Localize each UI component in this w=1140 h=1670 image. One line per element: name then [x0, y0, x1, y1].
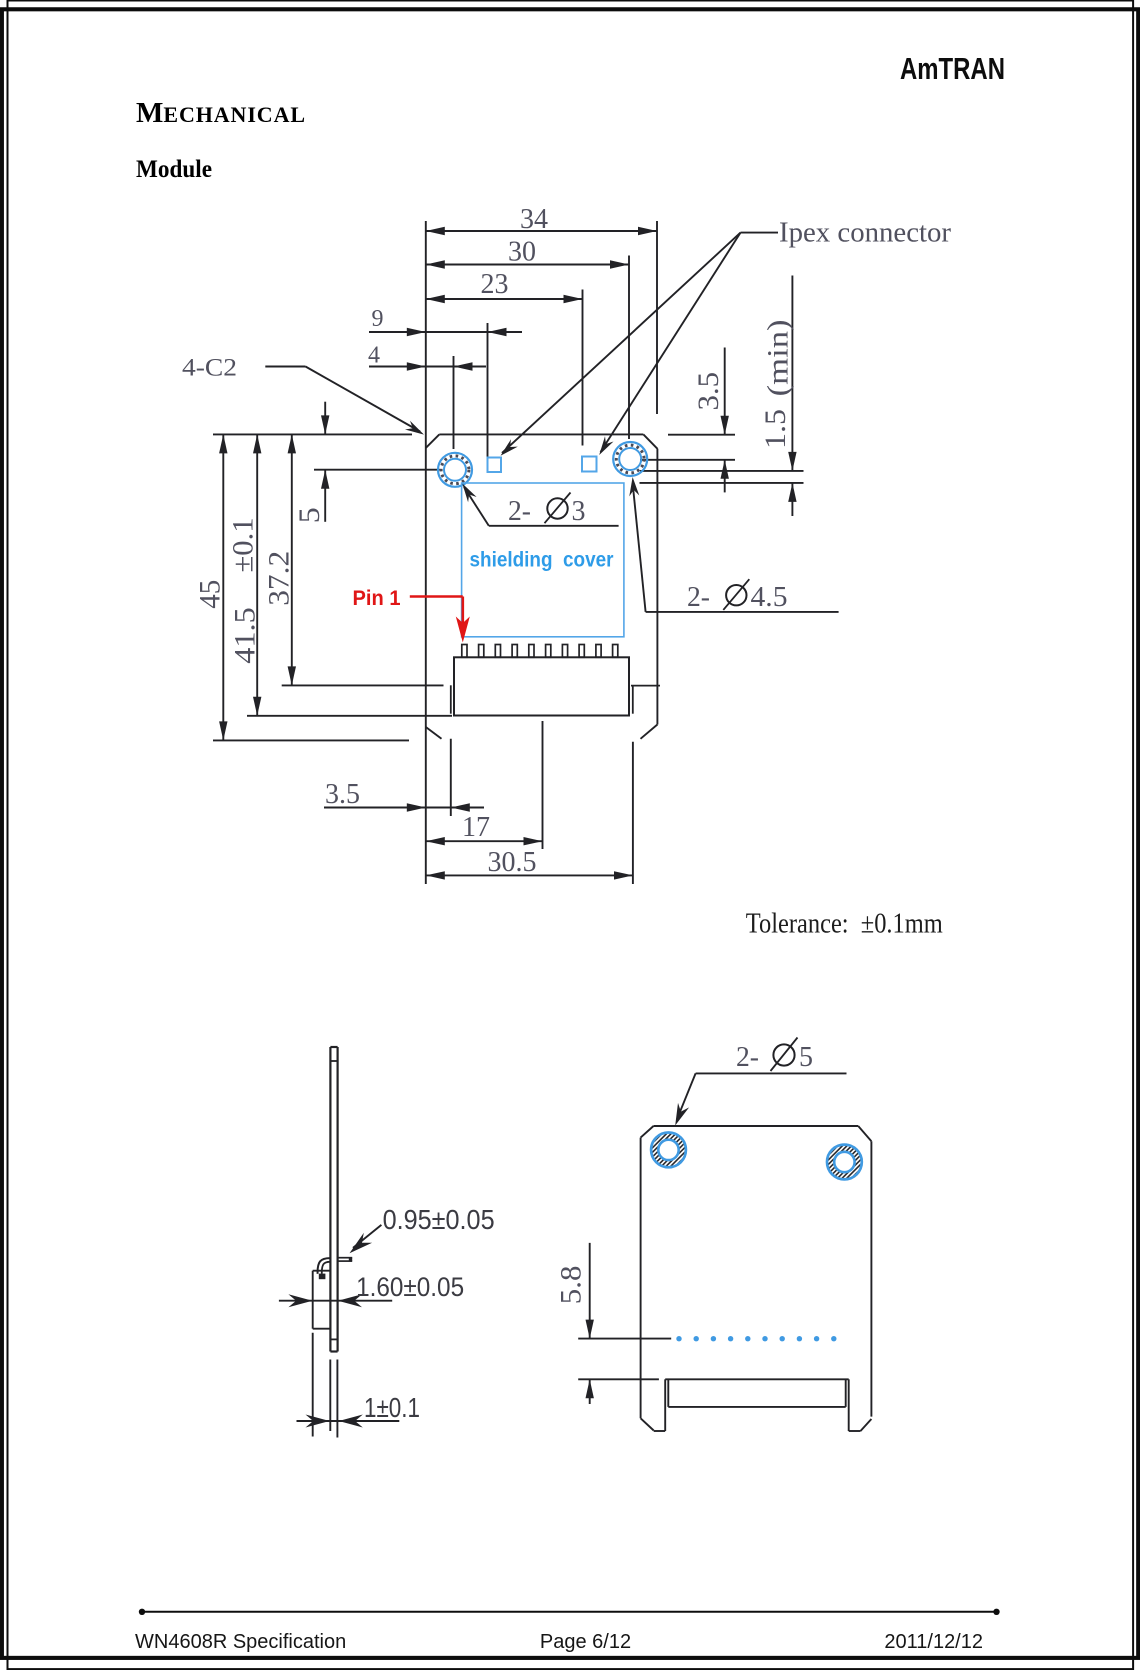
svg-text:3: 3: [572, 496, 586, 527]
svg-text:23: 23: [481, 269, 509, 300]
svg-text:shielding cover: shielding cover: [470, 549, 614, 572]
svg-text:9: 9: [372, 306, 384, 332]
svg-text:5.8: 5.8: [555, 1266, 588, 1305]
svg-text:2-: 2-: [736, 1042, 759, 1073]
svg-text:Page 6/12: Page 6/12: [540, 1631, 631, 1653]
svg-text:5: 5: [799, 1042, 813, 1073]
svg-text:Ipex connector: Ipex connector: [779, 217, 951, 249]
svg-text:±0.1: ±0.1: [227, 518, 260, 573]
svg-text:3.5: 3.5: [692, 372, 725, 411]
svg-text:41.5: 41.5: [228, 607, 261, 664]
svg-text:4.5: 4.5: [751, 582, 788, 613]
svg-text:WN4608R Specification: WN4608R Specification: [135, 1631, 346, 1653]
svg-text:Pin 1: Pin 1: [353, 587, 401, 610]
svg-text:2-: 2-: [508, 496, 531, 527]
svg-text:MECHANICAL: MECHANICAL: [136, 97, 306, 129]
svg-text:5: 5: [293, 507, 326, 523]
svg-text:34: 34: [520, 204, 548, 235]
svg-text:Module: Module: [136, 156, 212, 183]
svg-text:30.5: 30.5: [488, 847, 537, 878]
svg-text:1.5: 1.5: [759, 409, 792, 449]
svg-text:30: 30: [508, 237, 536, 268]
svg-text:(min): (min): [762, 319, 795, 396]
svg-text:1.60±0.05: 1.60±0.05: [356, 1272, 464, 1302]
svg-text:45: 45: [194, 580, 227, 609]
svg-text:2011/12/12: 2011/12/12: [884, 1631, 983, 1653]
svg-text:0.95±0.05: 0.95±0.05: [383, 1204, 495, 1235]
svg-text:4-C2: 4-C2: [182, 355, 237, 382]
svg-text:AmTRAN: AmTRAN: [900, 51, 1005, 86]
svg-text:3.5: 3.5: [325, 779, 360, 810]
svg-text:1±0.1: 1±0.1: [364, 1392, 420, 1423]
svg-text:Tolerance: ±0.1mm: Tolerance: ±0.1mm: [746, 908, 943, 939]
svg-text:37.2: 37.2: [262, 551, 295, 606]
svg-text:2-: 2-: [687, 582, 710, 613]
svg-text:17: 17: [462, 812, 490, 843]
svg-text:4: 4: [368, 343, 380, 369]
